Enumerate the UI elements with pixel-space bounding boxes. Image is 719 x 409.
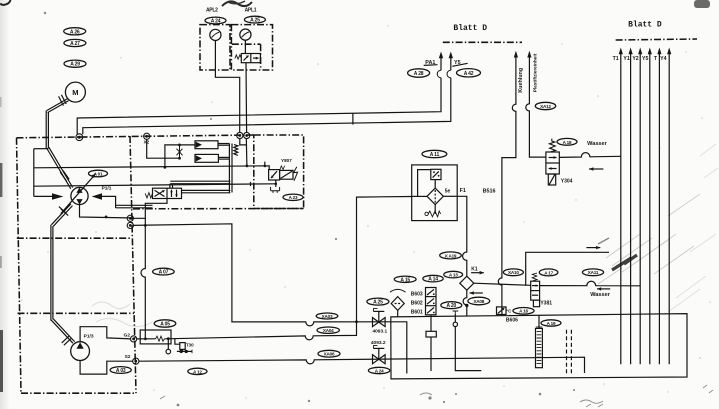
svg-text:X2: X2 bbox=[144, 139, 150, 144]
shaft P1/1 to P1/3 (double line suction/shaft) bbox=[51, 204, 75, 345]
svg-text:G2: G2 bbox=[124, 333, 131, 339]
svg-text:F1: F1 bbox=[460, 188, 466, 194]
wire Y304 to T1 with hook bbox=[559, 153, 621, 158]
boundary partition at y=238 bbox=[17, 237, 131, 239]
svg-text:A 19: A 19 bbox=[547, 321, 556, 326]
svg-text:B603: B603 bbox=[411, 291, 423, 297]
motor M bbox=[65, 82, 85, 102]
junction filter riser on XA03 wire bbox=[355, 320, 358, 323]
label A 03 bbox=[110, 367, 131, 374]
wire K1 connection top bbox=[526, 252, 609, 285]
svg-text:A 25: A 25 bbox=[250, 18, 260, 24]
wire APL1 down to node bbox=[245, 40, 246, 132]
svg-text:Wasser: Wasser bbox=[590, 292, 611, 298]
return filter (diamond) above tank bbox=[390, 289, 406, 316]
svg-text:Plastifiziereinheit: Plastifiziereinheit bbox=[533, 53, 538, 92]
label A 26 bbox=[64, 28, 86, 36]
proportional solenoid of Y807 bbox=[280, 166, 298, 181]
boundary inner partition APL1 bbox=[232, 43, 261, 45]
label A 07 bbox=[153, 268, 175, 275]
line A07 vertical bbox=[141, 218, 145, 338]
svg-text:Y5: Y5 bbox=[454, 60, 461, 66]
svg-text:PA1: PA1 bbox=[425, 60, 435, 66]
boundary box A23 bbox=[254, 135, 304, 209]
label A 20 bbox=[441, 302, 462, 310]
svg-text:A 05: A 05 bbox=[160, 322, 170, 328]
node X2 on boundary bbox=[144, 133, 150, 139]
label A 27 bbox=[64, 39, 86, 47]
svg-text:A 25: A 25 bbox=[373, 300, 383, 306]
spring at check rail (vertical zigzag) bbox=[234, 145, 238, 156]
crossing tick on top wires bbox=[352, 113, 354, 125]
label A 24 lower bbox=[368, 367, 389, 373]
clogging switch in A11 bbox=[418, 169, 441, 196]
svg-text:A 14: A 14 bbox=[428, 277, 438, 283]
ball valve 4093.1 bbox=[373, 309, 386, 327]
port node APL2 on boundary bbox=[237, 132, 243, 138]
port node APL1 on boundary bbox=[244, 132, 250, 138]
label A 11 bbox=[422, 150, 447, 158]
orifice diamond on cooler line bbox=[460, 276, 474, 290]
thermostat T30 bbox=[175, 339, 192, 354]
pump P1/1 port arrow (right) bbox=[92, 193, 102, 200]
svg-text:S2: S2 bbox=[125, 354, 131, 360]
label XA06 bbox=[318, 350, 340, 357]
port node G2 bbox=[131, 336, 137, 342]
arrow Wasser top (flow left) bbox=[589, 167, 603, 171]
label A 16 bbox=[513, 308, 534, 315]
filter unit box A11 bbox=[412, 165, 458, 221]
svg-text:B601: B601 bbox=[411, 310, 423, 316]
label A 29 bbox=[64, 60, 86, 68]
hook label A28 on PA1 line bbox=[437, 70, 441, 78]
pump P1/1 bbox=[61, 174, 96, 214]
line Plastifiziereinheit with arrow bbox=[526, 51, 546, 157]
port node X-line on boundary bbox=[127, 222, 133, 228]
svg-text:Wasser: Wasser bbox=[587, 141, 608, 147]
wire riser from W1 to upper check valve bbox=[165, 145, 195, 167]
svg-text:Y5: Y5 bbox=[642, 56, 648, 62]
svg-text:A 07: A 07 bbox=[159, 270, 169, 276]
wire F1 output down to cooler circuit bbox=[457, 196, 467, 315]
boundary box left unit: bottom edge bbox=[21, 392, 136, 394]
label A 23 bbox=[283, 194, 303, 200]
svg-text:Y807: Y807 bbox=[281, 158, 292, 163]
level gauge (dashed) in tank bbox=[567, 330, 572, 376]
line Y5r with arrowhead bbox=[648, 48, 652, 365]
label A 15 bbox=[394, 276, 416, 283]
tick on W2 bbox=[250, 182, 252, 186]
pump P1/3 bbox=[71, 342, 90, 361]
svg-text:A 03: A 03 bbox=[116, 368, 126, 374]
directional valve (pump control) bbox=[153, 188, 182, 198]
spring of APL1 valve bbox=[235, 55, 241, 59]
wire W1 long horizontal to Y807 bbox=[34, 166, 269, 170]
svg-text:P1/3: P1/3 bbox=[84, 333, 94, 339]
arrow left under diamond bbox=[470, 291, 483, 295]
svg-text:A 24: A 24 bbox=[375, 368, 384, 373]
svg-text:A 11: A 11 bbox=[430, 152, 440, 158]
wire top W_top1 to PA1 bbox=[77, 58, 441, 134]
pilot pipe upper rail to valve bbox=[170, 181, 230, 188]
spring on Y304 bbox=[549, 139, 555, 152]
svg-text:A 18: A 18 bbox=[563, 140, 572, 145]
svg-text:A 16: A 16 bbox=[519, 309, 528, 314]
relief valve Y807 body bbox=[264, 162, 280, 180]
suction line A20 with strainer foot bbox=[453, 311, 482, 371]
test point under A05 bbox=[166, 339, 171, 354]
junction left rail bottom bbox=[178, 157, 181, 160]
temperature sensor B606 bbox=[497, 307, 507, 315]
svg-text:Y2: Y2 bbox=[632, 56, 638, 62]
check valve unit A05 at G2 bbox=[137, 330, 171, 344]
wire below APL nodes joining to W1 bbox=[240, 139, 247, 166]
wire P1/3 lower loop to S2 bbox=[80, 361, 133, 375]
pilot pipe lower rail to valve bbox=[182, 190, 231, 192]
junction on case drain bbox=[105, 216, 108, 219]
wire XA06 from S2 into tank bbox=[139, 357, 585, 373]
svg-text:M: M bbox=[72, 88, 78, 97]
svg-text:Blatt D: Blatt D bbox=[628, 20, 662, 29]
wire pump right to control valve bbox=[102, 196, 153, 205]
svg-text:XA06: XA06 bbox=[324, 352, 335, 357]
svg-text:T1: T1 bbox=[613, 56, 619, 62]
arrowhead Y5 bbox=[449, 52, 453, 59]
label A 17 bbox=[539, 269, 558, 276]
svg-text:A 26: A 26 bbox=[70, 29, 80, 35]
ball valve 4093.2 bbox=[373, 346, 386, 364]
boundary box left unit: left edge bbox=[17, 138, 22, 393]
label A 25 lower bbox=[367, 298, 389, 306]
line T1 with arrowhead bbox=[619, 48, 623, 365]
svg-text:A 27: A 27 bbox=[70, 41, 80, 47]
line T with arrowhead bbox=[657, 48, 661, 365]
label A 24 bbox=[205, 17, 226, 24]
pressure switch stack B603 B602 B601 bbox=[426, 288, 437, 315]
svg-text:A 29: A 29 bbox=[70, 62, 80, 68]
label XA19 bbox=[440, 252, 462, 259]
wire pump outlet rail vertical bbox=[33, 149, 35, 197]
label A 18 bbox=[557, 138, 577, 145]
line Y4 with arrowhead bbox=[667, 48, 671, 365]
wire into pump left bbox=[34, 195, 53, 197]
label A 42 bbox=[457, 69, 481, 77]
svg-text:K1: K1 bbox=[471, 266, 478, 272]
wire W2 long horizontal drain bbox=[34, 184, 276, 186]
label A 14 bbox=[423, 275, 443, 282]
PA1 label underline bbox=[424, 64, 438, 67]
Y5 label underline bbox=[452, 63, 467, 66]
accumulator APL2 bbox=[210, 29, 221, 40]
svg-text:A 23: A 23 bbox=[289, 195, 298, 200]
boundary middle unit bottom edge bbox=[133, 208, 304, 210]
Blatt D separator left bbox=[443, 41, 522, 43]
svg-text:A 17: A 17 bbox=[544, 270, 553, 275]
orifice X on left rail bbox=[177, 145, 183, 158]
label A 05 bbox=[154, 320, 176, 328]
svg-text:Y1: Y1 bbox=[623, 56, 629, 62]
label A 13 bbox=[444, 271, 463, 278]
label XA08 bbox=[468, 297, 490, 305]
label A 28 bbox=[408, 69, 430, 77]
port node upper on boundary bbox=[127, 215, 133, 221]
label A 19 bbox=[541, 320, 561, 326]
filter element diamond in A11 bbox=[427, 180, 443, 205]
svg-text:P1/1: P1/1 bbox=[102, 186, 112, 192]
svg-text:X A19: X A19 bbox=[445, 253, 457, 258]
svg-text:T30: T30 bbox=[186, 342, 194, 347]
svg-text:A 28: A 28 bbox=[414, 71, 424, 77]
svg-text:A 13: A 13 bbox=[449, 273, 458, 278]
check valve lower bbox=[195, 154, 229, 162]
svg-text:APL1: APL1 bbox=[245, 8, 257, 14]
bypass spring in A11 bbox=[425, 205, 441, 217]
wire APL2 down to node bbox=[215, 41, 239, 133]
svg-text:A 15: A 15 bbox=[400, 277, 410, 283]
label A 25 bbox=[244, 16, 265, 23]
label XA03 bbox=[316, 313, 338, 319]
svg-text:A 42: A 42 bbox=[464, 71, 474, 77]
drain line under switch stack with orifice block bbox=[426, 315, 436, 371]
boundary partition at y=313 bbox=[18, 312, 135, 314]
svg-text:°C: °C bbox=[506, 308, 512, 313]
water valve Y381 bbox=[531, 281, 540, 307]
wire XA04 from A05 check valve to filter riser bbox=[171, 197, 412, 340]
label XA12 bbox=[535, 102, 555, 109]
svg-text:Blatt D: Blatt D bbox=[453, 24, 487, 33]
valve under APL1 bbox=[241, 54, 260, 63]
svg-text:Y4: Y4 bbox=[660, 56, 666, 62]
wire X2 branch down to lower check valve bbox=[147, 140, 180, 159]
Blatt D separator right bbox=[616, 39, 697, 40]
svg-text:4093.2: 4093.2 bbox=[371, 340, 386, 346]
svg-text:XA03: XA03 bbox=[322, 314, 333, 319]
wire diamond to Y381 bbox=[474, 283, 531, 285]
shaft M to P1/1 (double line with coupling ticks) bbox=[46, 95, 72, 189]
svg-text:B602: B602 bbox=[411, 300, 423, 306]
label XA11 bbox=[582, 269, 603, 276]
wire top W_top2 to Y5 bbox=[83, 58, 451, 134]
right rail double line bbox=[229, 144, 232, 193]
pump P1/1 inlet arrow (left) bbox=[52, 193, 63, 200]
line Kuehlung with arrow bbox=[498, 51, 518, 316]
junction under diamond bbox=[465, 304, 468, 307]
wire P1/3 outlet to G2 bbox=[80, 327, 131, 342]
svg-text:A 20: A 20 bbox=[447, 303, 457, 309]
wire control valve second line bbox=[116, 207, 153, 209]
drain of Y807 to tank bbox=[275, 180, 278, 187]
wire pump case drain to port bbox=[80, 205, 129, 218]
svg-text:A 01: A 01 bbox=[94, 171, 103, 176]
svg-text:XA10: XA10 bbox=[508, 270, 519, 275]
label XA04 bbox=[317, 327, 339, 333]
line Y2 with arrowhead bbox=[638, 48, 642, 365]
svg-text:Y381: Y381 bbox=[540, 300, 552, 306]
wire through A11 bbox=[412, 195, 458, 197]
svg-text:B606: B606 bbox=[506, 317, 518, 323]
wire XA03 from port to 4093.1 and drain corner bbox=[132, 224, 407, 374]
heater element in tank bbox=[536, 315, 543, 367]
svg-text:XA11: XA11 bbox=[588, 270, 599, 275]
boundary box left unit: right partition edge bbox=[130, 136, 136, 393]
svg-text:Y304: Y304 bbox=[561, 178, 573, 184]
junction APL1/W1 bbox=[246, 165, 249, 168]
boundary box APL2 bbox=[200, 25, 230, 70]
arrowhead PA1 bbox=[439, 52, 443, 59]
drain of directional valve to port bbox=[132, 199, 167, 219]
spring W of directional valve bbox=[145, 193, 152, 198]
tank symbol under Y807 bbox=[271, 187, 280, 193]
svg-text:A 12: A 12 bbox=[193, 369, 202, 374]
label A 12 bbox=[188, 368, 207, 374]
svg-text:XA08: XA08 bbox=[473, 299, 484, 304]
water valve Y304 bbox=[546, 152, 559, 185]
junction of A07 line with X-wire bbox=[144, 224, 147, 227]
label XA10 bbox=[503, 269, 523, 276]
svg-text:5e: 5e bbox=[445, 188, 451, 194]
port node S2 bbox=[133, 358, 139, 364]
svg-text:Kuehlung: Kuehlung bbox=[518, 68, 524, 93]
junction left rail top bbox=[178, 144, 181, 147]
junction W1 riser bbox=[164, 166, 167, 169]
svg-text:4093.1: 4093.1 bbox=[372, 328, 387, 334]
wire stub at shaft top bbox=[34, 148, 49, 150]
boundary box left unit: top edge bbox=[17, 135, 254, 138]
arrow right on K1 wire bbox=[586, 246, 600, 249]
tank / cooler unit rectangle bbox=[391, 314, 687, 379]
arrow K1 annotation bbox=[471, 271, 484, 275]
arrow Wasser bottom (flow left) bbox=[597, 287, 610, 290]
accumulator APL1 bbox=[240, 29, 251, 40]
svg-text:B516: B516 bbox=[483, 189, 496, 195]
line Y1 with arrowhead bbox=[629, 48, 633, 365]
label A 01 bbox=[89, 170, 108, 177]
svg-text:A 24: A 24 bbox=[211, 19, 221, 25]
spring on Y381 bbox=[532, 273, 537, 281]
check valve upper (to APL) bbox=[195, 141, 229, 149]
svg-text:APL2: APL2 bbox=[206, 8, 218, 14]
svg-text:XA04: XA04 bbox=[323, 328, 334, 333]
hook label A42 on Y5 line bbox=[447, 70, 451, 78]
svg-text:XA12: XA12 bbox=[540, 104, 551, 109]
wire Y381 to lines with hook bbox=[540, 281, 641, 286]
port node below motor on boundary bbox=[76, 134, 83, 141]
boundary box APL1 bbox=[231, 25, 272, 70]
